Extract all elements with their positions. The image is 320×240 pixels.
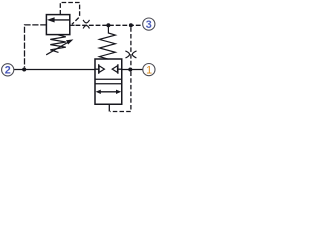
orifice O2 <box>125 51 129 58</box>
junction dot node C <box>22 68 26 72</box>
main valve spring <box>99 25 115 59</box>
right check seat <box>117 64 119 74</box>
bidirectional flow arrow <box>100 91 117 93</box>
svg-text:3: 3 <box>146 19 152 31</box>
port 2 line <box>14 69 95 71</box>
svg-text:2: 2 <box>5 65 11 77</box>
main valve U1 body <box>95 59 122 104</box>
port 2 circle <box>2 64 14 76</box>
channel stub left <box>95 68 99 70</box>
pilot vent dashed route (valve top to drain line) <box>60 3 79 25</box>
junction dot node D <box>128 68 132 72</box>
pilot stub under valve <box>108 104 110 111</box>
port 1 line <box>122 69 143 71</box>
relief valve adjustment arrow <box>46 43 67 55</box>
junction dot node A <box>106 23 110 27</box>
left check seat <box>98 64 100 74</box>
port 1 circle <box>143 64 155 76</box>
orifice O1 <box>83 20 89 23</box>
port 3 circle <box>143 18 155 30</box>
relief valve left pilot line (dashed) <box>25 25 47 68</box>
channel stub right <box>118 68 122 70</box>
relief valve adjustable spring <box>50 35 66 53</box>
drain/vent dashed line to port 3 <box>76 24 143 26</box>
relief valve right port stub <box>70 24 75 26</box>
junction dot node B <box>129 23 133 27</box>
pilot dashed line node B down <box>130 27 132 67</box>
main valve lower divider <box>95 83 122 85</box>
main valve upper divider <box>95 78 122 80</box>
svg-text:1: 1 <box>146 65 152 77</box>
pilot dashed line node D down and under valve <box>110 72 131 112</box>
relief valve V1 body <box>46 15 69 35</box>
relief valve flow arrow <box>53 19 70 21</box>
